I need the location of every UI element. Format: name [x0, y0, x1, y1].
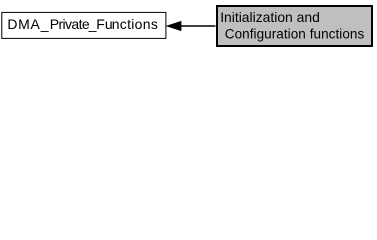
wire (dependency edge shaft)	[181, 25, 216, 27]
arrowhead pointing left	[167, 21, 181, 30]
svg-text:Configuration functions: Configuration functions	[225, 26, 365, 41]
node DMA_Private_Functions	[2, 12, 166, 38]
svg-text:DMA_Private_Functions: DMA_Private_Functions	[7, 16, 158, 32]
svg-text:Initialization and: Initialization and	[220, 9, 320, 25]
node Initialization and Configuration functions (group, grey)	[217, 6, 372, 46]
